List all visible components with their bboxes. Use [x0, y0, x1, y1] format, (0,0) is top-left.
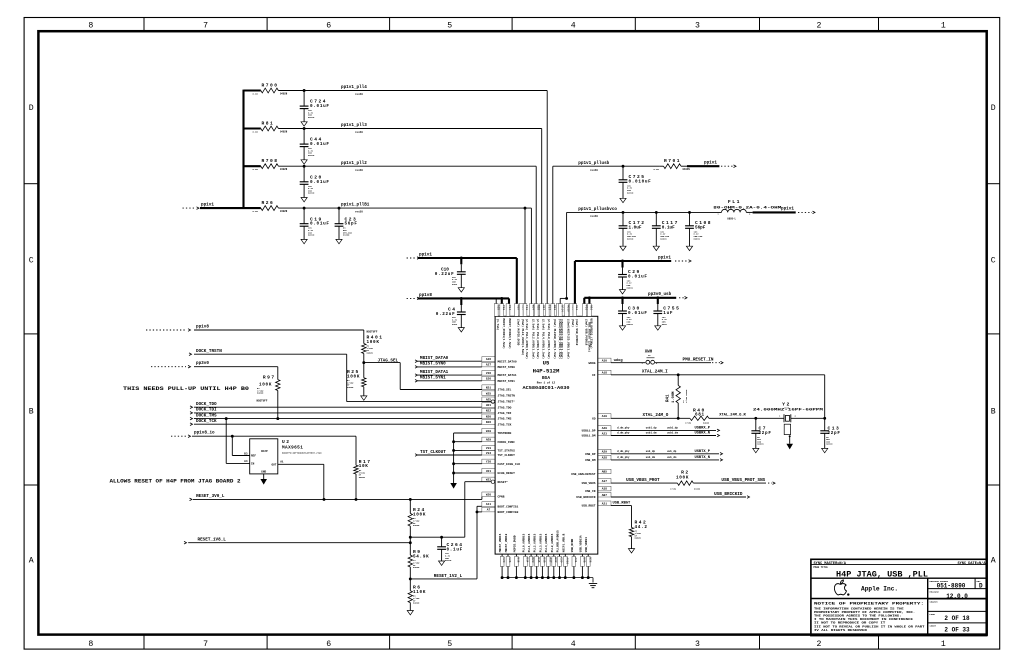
svg-text:B: B [991, 408, 996, 417]
svg-text:22pF: 22pF [828, 431, 841, 436]
svg-text:USB_ID: USB_ID [585, 490, 596, 493]
svg-text:USB_VBUS: USB_VBUS [582, 482, 596, 485]
svg-text:051-8890: 051-8890 [937, 582, 966, 589]
svg-text:REF: REF [251, 455, 256, 458]
svg-text:A11: A11 [486, 503, 491, 506]
ground C10 [458, 288, 464, 292]
svg-text:0402N: 0402N [703, 421, 710, 424]
svg-text:D15: D15 [537, 557, 540, 562]
svg-text:USB_VBUS_PROT_SNS: USB_VBUS_PROT_SNS [721, 478, 765, 483]
svg-text:C: C [29, 257, 34, 266]
svg-text:pp1v1_pll2: pp1v1_pll2 [341, 161, 367, 166]
wire pp1v1_pllusb [552, 166, 554, 316]
svg-text:USBTX_N: USBTX_N [695, 456, 711, 460]
svg-text:Y20: Y20 [486, 461, 491, 464]
wire pp1v1_pll4 [278, 90, 547, 92]
border column ticks bottom [143, 635, 145, 650]
svg-text:0402N: 0402N [413, 602, 420, 605]
ground C7 [753, 448, 759, 452]
svg-text:USB_RBGT: USB_RBGT [582, 505, 596, 508]
svg-text:AE5: AE5 [486, 398, 491, 401]
svg-text:AF14: AF14 [560, 305, 563, 312]
ground C4 [458, 328, 464, 332]
svg-text:1: 1 [941, 22, 946, 31]
wire USB_RBGT [611, 505, 632, 507]
svg-text:D: D [979, 583, 983, 590]
capacitor C172 [622, 212, 624, 225]
svg-text:A: A [991, 556, 996, 565]
svg-text:usb_dp: usb_dp [646, 449, 656, 453]
svg-text:res50: res50 [355, 211, 363, 214]
svg-text:TST_CLKOUT: TST_CLKOUT [420, 450, 446, 455]
svg-text:56pF: 56pF [345, 222, 358, 227]
wire U2 REF [231, 436, 233, 455]
svg-text:A21: A21 [602, 502, 607, 505]
svg-text:0.01uF: 0.01uF [310, 142, 330, 147]
svg-text:USB_BRICKID: USB_BRICKID [714, 492, 743, 497]
svg-text:usb1_dp: usb1_dp [646, 426, 657, 430]
capacitor C755 [657, 298, 659, 304]
svg-text:A37: A37 [602, 480, 607, 483]
svg-text:2: 2 [817, 22, 822, 31]
svg-text:A28: A28 [602, 457, 607, 460]
svg-text:MAX9651: MAX9651 [282, 446, 303, 451]
svg-text:pp1v8_io: pp1v8_io [194, 431, 215, 436]
svg-text:PLL4_AVDD15: PLL4_AVDD15 [545, 533, 548, 552]
svg-text:AB7: AB7 [602, 494, 607, 497]
svg-text:0.01uF: 0.01uF [628, 274, 648, 279]
svg-text:d_dm_phy: d_dm_phy [617, 455, 630, 459]
net pp1v8 left rail [407, 297, 417, 299]
svg-text:WDOG: WDOG [589, 362, 596, 365]
svg-text:4: 4 [571, 640, 576, 649]
svg-text:0402N: 0402N [359, 476, 366, 479]
svg-text:pp1v8: pp1v8 [419, 293, 432, 298]
svg-text:0402N: 0402N [280, 92, 288, 95]
wire U2 OUT [278, 463, 324, 465]
svg-text:SYNC_DATE=N/A: SYNC_DATE=N/A [957, 561, 986, 566]
svg-text:res50: res50 [355, 131, 363, 134]
resistor R81 [244, 127, 261, 129]
svg-text:(2.5mA) PLL1_AVDD(1.5mA): (2.5mA) PLL1_AVDD(1.5mA) [525, 319, 529, 360]
svg-text:CPNB: CPNB [498, 496, 505, 499]
svg-text:wdog: wdog [614, 358, 623, 363]
svg-text:B0B: B0B [583, 557, 586, 562]
svg-text:RESET_1V2_L: RESET_1V2_L [434, 574, 463, 579]
node JTAG_SEL [362, 361, 365, 364]
resistor R6 [409, 579, 411, 591]
svg-text:0402N: 0402N [367, 352, 374, 355]
svg-text:USB_DM: USB_DM [585, 459, 596, 462]
capacitor C10 [460, 258, 462, 264]
ground bottom rail [589, 583, 597, 585]
ground C755 [655, 326, 661, 330]
svg-text:res50: res50 [590, 169, 598, 172]
svg-text:NOSTUFF: NOSTUFF [257, 400, 268, 403]
svg-text:pp1v1: pp1v1 [704, 160, 717, 165]
svg-text:PLL2_AVDD15: PLL2_AVDD15 [534, 533, 537, 552]
svg-text:MBIST_DATA1: MBIST_DATA1 [498, 374, 517, 377]
svg-text:PROPRIETARY PROPERTY OF APPLE: PROPRIETARY PROPERTY OF APPLE COMPUTER, … [814, 611, 915, 614]
svg-text:R26: R26 [262, 200, 275, 206]
svg-text:(15mA)HSIF(IO_VDD(1.8mA): (15mA)HSIF(IO_VDD(1.8mA) [567, 319, 571, 360]
wire ground rail bottom [502, 577, 593, 579]
svg-text:JTAG_TMS: JTAG_TMS [498, 418, 512, 421]
svg-text:A18: A18 [602, 372, 607, 375]
svg-text:IV ALL RIGHTS RESERVED: IV ALL RIGHTS RESERVED [814, 629, 868, 632]
wire pp1v1_pllB1 [278, 207, 531, 209]
ground C30 [619, 326, 625, 330]
svg-text:N21: N21 [486, 386, 491, 389]
svg-text:USB11_DM: USB11_DM [582, 435, 596, 438]
svg-text:AC58048C01-A030: AC58048C01-A030 [523, 385, 570, 391]
svg-text:U17: U17 [542, 305, 545, 310]
ground C108 [686, 246, 692, 250]
svg-text:C23: C23 [502, 557, 505, 562]
svg-text:V34: V34 [486, 452, 491, 455]
svg-text:681: 681 [695, 413, 705, 418]
svg-text:MBIST_DATA1: MBIST_DATA1 [420, 370, 449, 375]
svg-text:II NOT TO REPRODUCE OR COPY IT: II NOT TO REPRODUCE OR COPY IT [814, 622, 886, 625]
ground C724 [301, 122, 307, 126]
svg-text:USB_VDD33: USB_VDD33 [585, 537, 588, 552]
svg-text:(2.5mA) PLL3_AVDD(1.5mA): (2.5mA) PLL3_AVDD(1.5mA) [536, 319, 540, 360]
resistor R9 [409, 543, 411, 555]
svg-text:A17: A17 [548, 557, 551, 562]
svg-text:RESET*: RESET* [498, 480, 509, 484]
capacitor C724 [303, 91, 305, 107]
svg-text:2 OF 33: 2 OF 33 [944, 627, 970, 634]
wire pp1v1_pll3 [278, 128, 541, 130]
svg-text:B3: B3 [244, 452, 248, 455]
wire pp1v1_pll2 [278, 165, 536, 167]
svg-text:1: 1 [941, 640, 946, 649]
net RESET_3V0_L entry [190, 498, 193, 501]
svg-text:USB_VBUS_PROT: USB_VBUS_PROT [626, 478, 660, 483]
net pp1v8_io entry [171, 435, 186, 437]
svg-text:d_dm_phy: d_dm_phy [617, 431, 630, 435]
wire pp1v8 to R401 [194, 329, 364, 331]
wire MBIST_SYN0 [418, 366, 482, 368]
svg-text:0201N: 0201N [308, 234, 315, 237]
svg-text:OUT: OUT [271, 464, 276, 467]
svg-text:OC#P: OC#P [261, 450, 268, 453]
resistor R701 [660, 165, 664, 167]
svg-text:(3mA) MGPIO_OVDD: (3mA) MGPIO_OVDD [516, 319, 520, 346]
svg-text:AB1: AB1 [590, 305, 593, 310]
svg-text:0402: 0402 [452, 283, 458, 286]
capacitor C30 [621, 298, 623, 304]
svg-text:D20: D20 [531, 557, 534, 562]
svg-text:A7: A7 [487, 509, 491, 512]
capacitor C7 [755, 418, 757, 431]
svg-text:FL1: FL1 [728, 199, 741, 205]
svg-text:usb_dm: usb_dm [646, 455, 656, 459]
svg-text:0201N: 0201N [694, 237, 701, 240]
wire pllusbvco branch [560, 297, 566, 299]
svg-text:0201N: 0201N [627, 286, 634, 289]
svg-text:USB_DVDD: USB_DVDD [571, 538, 574, 552]
net pp1v1 right rail [575, 260, 671, 262]
svg-text:0201N: 0201N [308, 192, 315, 195]
wire pp1v1 bus [200, 207, 244, 209]
svg-text:SEARCH: SEARCH [930, 601, 939, 604]
svg-text:Y13: Y13 [502, 305, 505, 310]
svg-text:DOCK_TRSTN: DOCK_TRSTN [196, 349, 222, 354]
wire USB_VBUS_PROT [611, 482, 677, 484]
svg-text:MBIST_VDD15: MBIST_VDD15 [499, 533, 502, 552]
svg-text:0201N: 0201N [660, 237, 667, 240]
svg-text:MBIST_VDD18: MBIST_VDD18 [505, 533, 508, 552]
wire tie-down bus [454, 432, 482, 434]
svg-text:A10: A10 [602, 415, 607, 418]
svg-text:DOCK_TDO: DOCK_TDO [196, 402, 217, 407]
border column ticks top [143, 18, 145, 32]
svg-text:MBIST_SYN0: MBIST_SYN0 [420, 362, 446, 367]
svg-text:0201N: 0201N [308, 154, 315, 157]
resistor R2 [677, 481, 693, 485]
net DOCK_TDO entry [190, 406, 193, 409]
svg-text:0402N: 0402N [347, 386, 354, 389]
svg-text:0402N: 0402N [635, 537, 642, 540]
svg-text:0402N: 0402N [683, 168, 691, 171]
wire pp3v0 to R97 [194, 366, 278, 368]
wire JTAG_SEL [364, 362, 400, 364]
svg-text:W23: W23 [486, 479, 491, 482]
svg-text:T21: T21 [525, 305, 528, 310]
svg-text:5: 5 [447, 640, 452, 649]
svg-text:DOCK_TMS: DOCK_TMS [196, 413, 217, 418]
svg-text:2 OF 18: 2 OF 18 [944, 615, 970, 622]
svg-text:A15: A15 [496, 305, 499, 310]
svg-text:(1.7mA): (1.7mA) [496, 319, 500, 331]
svg-text:MBIST_SYN1: MBIST_SYN1 [420, 376, 446, 381]
wire DOCK_TCK [194, 423, 482, 425]
svg-text:DOCK_TDI: DOCK_TDI [196, 408, 217, 413]
svg-text:JTAG_TCK: JTAG_TCK [498, 423, 512, 426]
net RESET_1V8_L entry [184, 541, 187, 544]
ic U5 left pin stubs [482, 357, 495, 362]
svg-text:FORCE_FUNC: FORCE_FUNC [498, 441, 516, 444]
svg-text:FAST_ECHG_CLK: FAST_ECHG_CLK [498, 463, 521, 466]
svg-text:C26: C26 [508, 557, 511, 562]
svg-text:RESET_1V8_L: RESET_1V8_L [198, 538, 227, 543]
border row ticks left [24, 183, 38, 185]
svg-text:8: 8 [88, 640, 93, 649]
svg-text:MBIST_DATA0: MBIST_DATA0 [498, 360, 517, 363]
svg-text:Y21: Y21 [584, 305, 587, 310]
svg-text:USB11_DP: USB11_DP [582, 430, 596, 433]
svg-text:4: 4 [571, 22, 576, 31]
svg-text:THIS NEEDS PULL-UP UNTIL H4P B: THIS NEEDS PULL-UP UNTIL H4P B0 [123, 386, 249, 392]
svg-text:PAGE: PAGE [930, 613, 936, 616]
svg-text:TST_STATUS: TST_STATUS [498, 450, 516, 453]
title block frame [811, 559, 987, 635]
svg-text:C: C [991, 257, 996, 266]
svg-text:0.01uF: 0.01uF [628, 311, 648, 316]
svg-text:AA16: AA16 [565, 557, 568, 564]
svg-text:24.000MHZ-16PF-60PPM: 24.000MHZ-16PF-60PPM [753, 408, 824, 412]
svg-text:0.00: 0.00 [654, 168, 660, 171]
svg-text:pp1v1_pllusb: pp1v1_pllusb [578, 161, 609, 166]
svg-text:0201N: 0201N [826, 443, 833, 446]
svg-text:W24: W24 [532, 305, 535, 310]
svg-text:PLL0_AVDD15: PLL0_AVDD15 [522, 533, 525, 552]
svg-text:JTAG_SEL: JTAG_SEL [498, 389, 512, 392]
net DOCK_TRSTN entry [189, 353, 192, 356]
border row ticks right [987, 183, 1000, 185]
wire DOCK_TDI [194, 412, 482, 414]
svg-text:A26: A26 [486, 358, 491, 361]
wire USB_BRICKID [611, 496, 746, 498]
svg-text:MGPIO_DVDD: MGPIO_DVDD [513, 535, 516, 552]
svg-text:0402N: 0402N [280, 210, 288, 213]
svg-text:NOTICE OF PROPRIETARY PROPERTY: NOTICE OF PROPRIETARY PROPERTY: [814, 603, 924, 607]
wire USB_DP [611, 453, 719, 455]
svg-text:0402N: 0402N [413, 524, 420, 527]
svg-text:pp1v1_pllusbvco: pp1v1_pllusbvco [578, 207, 617, 212]
svg-text:PLLUSB_AVDD15: PLLUSB_AVDD15 [557, 530, 560, 552]
svg-text:2: 2 [817, 640, 822, 649]
svg-text:XTAL_24M_O_R: XTAL_24M_O_R [719, 414, 746, 418]
svg-text:USB_VDD33A: USB_VDD33A [579, 535, 582, 552]
svg-text:SHEET: SHEET [930, 625, 937, 628]
svg-text:N22: N22 [486, 410, 491, 413]
svg-text:(2.5mA) PLL2_AVDD(1.5mA): (2.5mA) PLL2_AVDD(1.5mA) [531, 319, 535, 360]
svg-text:DOCK_TCK: DOCK_TCK [196, 419, 217, 424]
svg-text:3: 3 [695, 22, 700, 31]
svg-text:JTAG_TRSTN: JTAG_TRSTN [498, 395, 516, 398]
svg-text:pp1v1: pp1v1 [658, 255, 671, 260]
resistor R26 [244, 207, 261, 209]
net pp1v1 left rail [407, 257, 417, 259]
svg-text:0201N: 0201N [627, 191, 634, 194]
svg-text:TST_CLKOUT: TST_CLKOUT [498, 454, 516, 457]
svg-text:PAGE TITLE: PAGE TITLE [814, 566, 829, 569]
svg-text:0.010uF: 0.010uF [629, 179, 652, 184]
svg-text:pp1v1: pp1v1 [201, 203, 214, 208]
ground C725 [620, 198, 626, 202]
wire XTAL_24M_I [611, 374, 825, 376]
svg-text:NOSTUFF: NOSTUFF [367, 331, 378, 334]
svg-text:A27: A27 [486, 364, 491, 367]
wire pp1v1 right of FL1 [746, 211, 752, 213]
wire pp1v1 right of R701 [687, 165, 719, 167]
svg-text:AE9: AE9 [486, 439, 491, 442]
svg-text:3: 3 [695, 640, 700, 649]
svg-text:MBIST_OVDD2(1.5mA): MBIST_OVDD2(1.5mA) [508, 319, 512, 350]
wire MBIST_SYN1 [418, 380, 482, 382]
net TST_CLKOUT entry [415, 454, 418, 457]
svg-text:(5mA) PLL0_AVDD(1.5mA): (5mA) PLL0_AVDD(1.5mA) [521, 319, 525, 356]
ground R25 [361, 396, 367, 400]
svg-text:XTAL_24M_O: XTAL_24M_O [643, 413, 669, 418]
ic U5 body [495, 316, 598, 554]
wire RESET node [410, 536, 465, 538]
svg-text:USB_RBGT: USB_RBGT [613, 502, 631, 506]
svg-text:0.01uF: 0.01uF [310, 222, 330, 227]
svg-text:0201N: 0201N [445, 559, 452, 562]
net MBIST_SYN1 entry [415, 380, 418, 383]
ground U2 [260, 479, 267, 485]
svg-text:RESET_3V0_L: RESET_3V0_L [196, 494, 225, 499]
svg-text:D18: D18 [543, 557, 546, 562]
ic U5 top pin number boxes [494, 304, 498, 317]
svg-text:R97: R97 [263, 375, 276, 381]
net pp3v0 entry [151, 366, 186, 368]
svg-text:0402N: 0402N [280, 168, 288, 171]
svg-text:I TO MAINTAIN THIS DOCUMENT IN: I TO MAINTAIN THIS DOCUMENT IN CONFIDENC… [814, 618, 914, 621]
net MBIST_SYN0 entry [415, 366, 418, 369]
svg-text:T17: T17 [547, 305, 550, 310]
svg-text:22pF: 22pF [759, 431, 772, 436]
wire pp1v8_io [192, 435, 356, 437]
svg-text:THE INFORMATION CONTAINED HERE: THE INFORMATION CONTAINED HEREIN IS THE [814, 607, 904, 610]
svg-text:MBIST_SYN1: MBIST_SYN1 [498, 380, 516, 383]
resistor R24 [409, 499, 411, 513]
wire PMU_RESET_IN [655, 362, 711, 364]
resistor R40 [690, 416, 709, 420]
wire RESET_L [465, 481, 491, 483]
Apple logo [834, 580, 846, 595]
svg-text:PLL1_AVDD15: PLL1_AVDD15 [528, 533, 531, 552]
svg-text:usb_dp: usb_dp [667, 449, 677, 453]
svg-text:MBIST_DATA0: MBIST_DATA0 [420, 356, 449, 361]
svg-text:Apple Inc.: Apple Inc. [861, 585, 898, 592]
svg-text:(2.5mA) PLL8_AVDD(1.5mA): (2.5mA) PLL8_AVDD(1.5mA) [547, 319, 551, 360]
wire DOCK_TMS [194, 418, 482, 420]
svg-text:TRSTNODE: TRSTNODE [498, 432, 512, 435]
svg-text:usb1_dm: usb1_dm [667, 431, 678, 435]
svg-text:MBIST_OVDD1(1.5mA): MBIST_OVDD1(1.5mA) [502, 319, 506, 350]
svg-text:7: 7 [203, 640, 208, 649]
svg-text:JTAG_TDO: JTAG_TDO [498, 406, 512, 409]
svg-text:0402N: 0402N [280, 130, 288, 133]
svg-text:(2.5mA) PLL4_AVDD(1.5mA): (2.5mA) PLL4_AVDD(1.5mA) [542, 319, 546, 360]
svg-text:D: D [29, 104, 34, 113]
svg-text:1.00M: 1.00M [672, 391, 676, 403]
ground C19 [301, 239, 307, 243]
svg-text:V33: V33 [486, 447, 491, 450]
net DOCK_TCK entry [190, 423, 193, 426]
svg-text:0.00: 0.00 [253, 210, 259, 213]
svg-text:H21: H21 [486, 404, 491, 407]
svg-text:USBRX_N: USBRX_N [695, 432, 711, 436]
ground C117 [653, 246, 659, 250]
svg-text:pp1v1: pp1v1 [419, 252, 432, 257]
capacitor C725 [622, 166, 624, 180]
ground tie-down [450, 483, 457, 489]
svg-text:6: 6 [326, 22, 331, 31]
svg-text:6: 6 [326, 640, 331, 649]
svg-text:100K: 100K [259, 382, 272, 387]
svg-text:PMU_RESET_IN: PMU_RESET_IN [683, 357, 714, 362]
ground C44 [301, 160, 307, 164]
svg-text:res50: res50 [355, 93, 363, 96]
svg-text:5: 5 [447, 22, 452, 31]
svg-text:0402: 0402 [452, 323, 458, 326]
net DOCK_TMS entry [190, 417, 193, 420]
net DOCK_TDI entry [190, 412, 193, 415]
svg-text:PLL3_AVDD15: PLL3_AVDD15 [539, 533, 542, 552]
wire WDOG [611, 362, 645, 364]
wire XTAL_24M_O_R [709, 417, 784, 419]
svg-text:(6mA) PLLUSB_AVDD(1.5mA): (6mA) PLLUSB_AVDD(1.5mA) [553, 319, 557, 360]
svg-text:pp3v0_usb: pp3v0_usb [648, 292, 672, 297]
svg-text:12.0.0: 12.0.0 [946, 593, 968, 600]
svg-text:ECHG_RESET: ECHG_RESET [498, 472, 516, 475]
svg-text:JTAG_TDI: JTAG_TDI [498, 412, 512, 415]
